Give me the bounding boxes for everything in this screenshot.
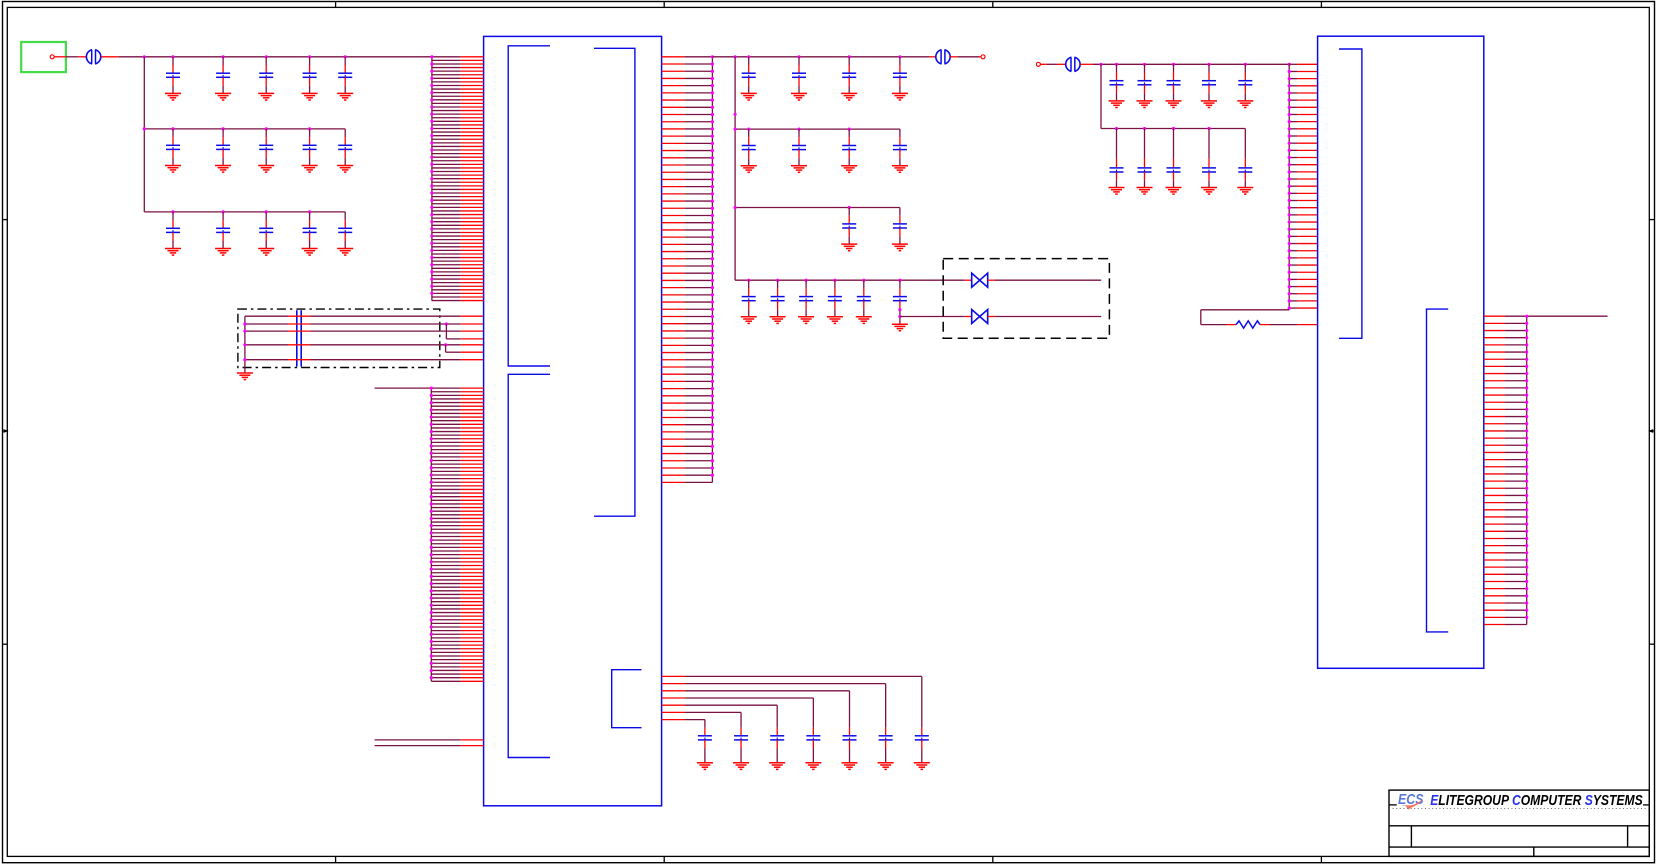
wire bbox=[1201, 324, 1226, 326]
ferrite bead FB3 bbox=[1066, 56, 1080, 73]
pin U1-B18 bbox=[431, 449, 460, 451]
junction bbox=[344, 55, 347, 58]
pin U1-R38 bbox=[662, 323, 685, 325]
ground bbox=[1237, 101, 1253, 108]
pin U1-B73 bbox=[431, 648, 460, 650]
pin U1-B17 bbox=[431, 445, 460, 447]
pin U2-L25 bbox=[1289, 235, 1297, 237]
pin U1-R36 bbox=[662, 308, 685, 310]
pin U1-B22 bbox=[431, 463, 460, 465]
title block bbox=[1389, 790, 1649, 856]
capacitor C12 bbox=[216, 212, 230, 249]
pin U2-R32 bbox=[1484, 537, 1505, 539]
junction bbox=[243, 330, 246, 333]
junction bbox=[222, 55, 225, 58]
pin U1-R3 bbox=[662, 70, 685, 72]
ground bbox=[741, 93, 757, 100]
pin U1-A55 bbox=[432, 249, 461, 251]
pin U2-L26 bbox=[1289, 243, 1297, 245]
pin U1-B58 bbox=[431, 593, 460, 595]
junction bbox=[848, 206, 851, 209]
pin U2-L12 bbox=[1289, 142, 1297, 144]
junction bbox=[308, 127, 311, 130]
bus wire bbox=[244, 316, 246, 373]
wire row2 bbox=[735, 128, 900, 130]
pin U2-R25 bbox=[1484, 487, 1505, 489]
pin U2-R17 bbox=[1484, 430, 1505, 432]
capacitor C1 bbox=[166, 57, 180, 94]
ground bbox=[892, 166, 908, 173]
pin U1-B57 bbox=[431, 590, 460, 592]
pin U1-A30 bbox=[432, 160, 461, 162]
pin U1-R8 bbox=[662, 106, 685, 108]
ground bbox=[215, 249, 231, 256]
pin U1-A18 bbox=[432, 117, 461, 119]
pin U1-R21 bbox=[662, 200, 685, 202]
ground bbox=[165, 166, 181, 173]
pin U2-R30 bbox=[1484, 523, 1505, 525]
pin U1-R52 bbox=[662, 424, 685, 426]
pin U1-A53 bbox=[432, 242, 461, 244]
pin U1-A6 bbox=[432, 74, 461, 76]
pin U1-R26 bbox=[662, 236, 685, 238]
pin U1-B14 bbox=[431, 434, 460, 436]
ground bbox=[914, 763, 930, 770]
resistor R1 bbox=[1236, 321, 1260, 328]
pin U1-B82 bbox=[431, 680, 460, 682]
ground bbox=[1109, 101, 1125, 108]
pin U1-B13 bbox=[431, 431, 460, 433]
pin U2-L24 bbox=[1289, 228, 1297, 230]
pin U1-R35 bbox=[662, 301, 685, 303]
wire bbox=[375, 745, 461, 747]
pin U2-L21 bbox=[1289, 207, 1297, 209]
pin U1-B19 bbox=[431, 452, 460, 454]
pin U1-B51 bbox=[431, 568, 460, 570]
pin U1-B77 bbox=[431, 662, 460, 664]
wire bbox=[1297, 324, 1317, 326]
junction bbox=[747, 279, 750, 282]
pin U1-B52 bbox=[431, 572, 460, 574]
ground bbox=[1201, 101, 1217, 108]
capacitor C43 bbox=[879, 728, 893, 763]
pin U1-R28 bbox=[662, 251, 685, 253]
capacitor C17 bbox=[792, 57, 806, 94]
ferrite bead FB2 bbox=[936, 48, 950, 65]
pin U1-R18 bbox=[662, 178, 685, 180]
wire net4 bbox=[245, 344, 288, 346]
ground bbox=[337, 166, 353, 173]
pin U1-B47 bbox=[431, 554, 460, 556]
pin U1-R43 bbox=[662, 359, 685, 361]
pin U1-R11 bbox=[662, 128, 685, 130]
wire net3 bbox=[245, 330, 288, 332]
junction bbox=[805, 279, 808, 282]
junction bbox=[898, 55, 901, 58]
pin U2-R33 bbox=[1484, 545, 1505, 547]
pin U1-B43 bbox=[431, 539, 460, 541]
bus wire U2 right bbox=[1526, 316, 1528, 624]
pin U1-B60 bbox=[431, 601, 460, 603]
wire jog bbox=[445, 345, 447, 352]
pin U2-R44 bbox=[1484, 624, 1505, 626]
capacitor C24 bbox=[842, 208, 856, 245]
capacitor C7 bbox=[216, 129, 230, 166]
pin U1-R48 bbox=[662, 395, 685, 397]
pin U2-L2 bbox=[1289, 70, 1297, 72]
pin U2-R15 bbox=[1484, 416, 1505, 418]
pin U1-B33 bbox=[431, 503, 460, 505]
pin U1-B71 bbox=[431, 641, 460, 643]
pin U2-L32 bbox=[1289, 286, 1297, 288]
pin U1-A5 bbox=[432, 70, 461, 72]
pin U2-L23 bbox=[1289, 221, 1297, 223]
capacitor C35 bbox=[1202, 64, 1216, 101]
junction bbox=[1143, 127, 1146, 130]
U1 inner section D bbox=[612, 670, 642, 728]
ground bbox=[741, 166, 757, 173]
capacitor C33 bbox=[1138, 64, 1152, 101]
pin U1-B40 bbox=[431, 528, 460, 530]
junction bbox=[1172, 127, 1175, 130]
pin U1-B26 bbox=[431, 478, 460, 480]
wire bbox=[1040, 63, 1047, 65]
wire jog bbox=[445, 324, 447, 339]
pin U1-A47 bbox=[432, 221, 461, 223]
pin U1-R20 bbox=[662, 193, 685, 195]
pin U1-B28 bbox=[431, 485, 460, 487]
pin U1-A12 bbox=[432, 95, 461, 97]
pin U1-R46 bbox=[662, 380, 685, 382]
pin U1-A66 bbox=[432, 289, 461, 291]
junction bbox=[171, 210, 174, 213]
ground bbox=[842, 763, 858, 770]
pin U2-R12 bbox=[1484, 394, 1505, 396]
wire bbox=[812, 698, 814, 728]
pin U2-L18 bbox=[1289, 185, 1297, 187]
pin U1-B79 bbox=[431, 669, 460, 671]
junction bbox=[1099, 63, 1102, 66]
pin U1-A15 bbox=[432, 106, 461, 108]
junction bbox=[734, 206, 737, 209]
pin U1-B16 bbox=[431, 441, 460, 443]
pin U1-S3 wire bbox=[662, 690, 685, 692]
ground bbox=[302, 249, 318, 256]
pin U1-A21 bbox=[432, 128, 461, 130]
pin U1-A19 bbox=[432, 120, 461, 122]
pin U1-B48 bbox=[431, 557, 460, 559]
junction bbox=[1207, 63, 1210, 66]
feedthrough plate bbox=[300, 310, 302, 366]
pin U1-R19 bbox=[662, 186, 685, 188]
pin U1-B74 bbox=[431, 651, 460, 653]
IC U1 north bridge bbox=[484, 36, 662, 805]
junction bbox=[265, 55, 268, 58]
capacitor C20 bbox=[742, 129, 756, 166]
capacitor C44 bbox=[843, 728, 857, 763]
pin U2-L17 bbox=[1289, 178, 1297, 180]
pin U1-A59 bbox=[432, 264, 461, 266]
pin U1-R5 bbox=[662, 85, 685, 87]
pin U2-R11 bbox=[1484, 387, 1505, 389]
pin U1-R23 bbox=[662, 214, 685, 216]
capacitor C34 bbox=[1167, 64, 1181, 101]
pin U1-A7 bbox=[432, 77, 461, 79]
wire bbox=[995, 279, 1101, 281]
bus wire bbox=[143, 57, 145, 212]
wire bbox=[988, 279, 995, 281]
junction bbox=[171, 55, 174, 58]
pin U2-R24 bbox=[1484, 480, 1505, 482]
pin U1-R32 bbox=[662, 279, 685, 281]
dashed module box M1 bbox=[238, 309, 440, 367]
pin U2-L27 bbox=[1289, 250, 1297, 252]
ground bbox=[798, 317, 814, 324]
junction bbox=[1172, 63, 1175, 66]
wire row3 bbox=[735, 207, 900, 209]
pin U2-R42 bbox=[1484, 609, 1505, 611]
pin U1-R57 bbox=[662, 460, 685, 462]
pin U2-R7 bbox=[1484, 358, 1505, 360]
pin U1-A13 bbox=[432, 99, 461, 101]
junction bbox=[747, 55, 750, 58]
pin U1-B53 bbox=[431, 575, 460, 577]
junction bbox=[243, 358, 246, 361]
pin U1-A45 bbox=[432, 214, 461, 216]
wire bbox=[101, 56, 119, 58]
wire row2 bbox=[1101, 128, 1245, 130]
capacitor C27 bbox=[771, 280, 785, 317]
U2 inner section A bbox=[1339, 49, 1362, 338]
wire row3 bbox=[144, 211, 345, 213]
pin U1-A14 bbox=[432, 102, 461, 104]
pin U1-B69 bbox=[431, 633, 460, 635]
pin U1-B56 bbox=[431, 586, 460, 588]
ground bbox=[878, 763, 894, 770]
pin U1-A60 bbox=[432, 267, 461, 269]
bus wire U1 left upper bbox=[431, 57, 433, 301]
wire stub bbox=[375, 387, 432, 389]
wire bbox=[957, 56, 979, 58]
pin U1-R22 bbox=[662, 207, 685, 209]
pin U1-A26 bbox=[432, 145, 461, 147]
junction bbox=[833, 279, 836, 282]
pin U2-R2 bbox=[1484, 322, 1505, 324]
ground bbox=[1166, 188, 1182, 195]
wire VCC-B net bbox=[712, 56, 929, 58]
ground bbox=[237, 373, 253, 380]
wire bbox=[950, 56, 957, 58]
wire bbox=[1057, 63, 1066, 65]
pin U2-L16 bbox=[1289, 171, 1297, 173]
junction bbox=[734, 128, 737, 131]
pin U1-B81 bbox=[431, 677, 460, 679]
pin U1-A23 bbox=[432, 135, 461, 137]
pin U1-R47 bbox=[662, 388, 685, 390]
pin U1-B37 bbox=[431, 517, 460, 519]
pin U1-A67 bbox=[432, 292, 461, 294]
pin U2-L10 bbox=[1289, 128, 1297, 130]
pin U1-B15 bbox=[431, 438, 460, 440]
pin U1-R16 bbox=[662, 164, 685, 166]
pin U2-L28 bbox=[1289, 257, 1297, 259]
pin U1-R12 bbox=[662, 135, 685, 137]
U2 inner section B bbox=[1427, 309, 1449, 632]
bus wire U2 left bbox=[1288, 64, 1290, 309]
pin U2-R36 bbox=[1484, 566, 1505, 568]
junction bbox=[444, 343, 447, 346]
wire bbox=[1201, 309, 1289, 311]
wire bbox=[1047, 63, 1057, 65]
pin U2-R41 bbox=[1484, 602, 1505, 604]
pin U1-A64 bbox=[432, 282, 461, 284]
pin U1-R39 bbox=[662, 330, 685, 332]
pin U1-R33 bbox=[662, 287, 685, 289]
pin U2-R5 bbox=[1484, 344, 1505, 346]
junction bbox=[1244, 63, 1247, 66]
wire bbox=[740, 712, 742, 727]
pin U1-A24 bbox=[432, 138, 461, 140]
pin U1-A68 bbox=[432, 296, 461, 298]
pin U2-R21 bbox=[1484, 459, 1505, 461]
pin U1-R6 bbox=[662, 92, 685, 94]
pin U2-R16 bbox=[1484, 423, 1505, 425]
pin U1-R15 bbox=[662, 157, 685, 159]
pin U1-B23 bbox=[431, 467, 460, 469]
pin U1-R2 bbox=[662, 63, 685, 65]
pin U2-R3 bbox=[1484, 330, 1505, 332]
pin U1-A10 bbox=[432, 88, 461, 90]
pin U1-A51 bbox=[432, 235, 461, 237]
pin U2-L1 bbox=[1289, 63, 1297, 65]
junction bbox=[445, 322, 448, 325]
wire bbox=[988, 316, 995, 318]
capacitor C8 bbox=[259, 129, 273, 166]
pin U2-L14 bbox=[1289, 157, 1297, 159]
junction bbox=[862, 279, 865, 282]
pin U2-R18 bbox=[1484, 437, 1505, 439]
terminal P2 bbox=[981, 55, 985, 59]
ground bbox=[1137, 101, 1153, 108]
pin U1-B41 bbox=[431, 532, 460, 534]
wire bbox=[1260, 324, 1270, 326]
U1 inner section B bbox=[508, 374, 550, 757]
pin U1-B31 bbox=[431, 496, 460, 498]
pin U1-B27 bbox=[431, 481, 460, 483]
wire bbox=[1270, 324, 1297, 326]
pin U2-R38 bbox=[1484, 580, 1505, 582]
pin U1-B72 bbox=[431, 644, 460, 646]
ground bbox=[791, 166, 807, 173]
capacitor C18 bbox=[842, 57, 856, 94]
pin U2-L11 bbox=[1289, 135, 1297, 137]
wire bbox=[979, 56, 981, 58]
wire bbox=[965, 279, 972, 281]
pin U2-L9 bbox=[1289, 121, 1297, 123]
capacitor C4 bbox=[303, 57, 317, 94]
capacitor C42 bbox=[915, 728, 929, 763]
U1 inner section C bbox=[594, 48, 635, 516]
pin U1-R42 bbox=[662, 352, 685, 354]
pin U2-R9 bbox=[1484, 373, 1505, 375]
pin U1-A40 bbox=[432, 196, 461, 198]
junction bbox=[776, 279, 779, 282]
pin U1-B30 bbox=[431, 492, 460, 494]
ground bbox=[805, 763, 821, 770]
pin U1-B50 bbox=[431, 564, 460, 566]
pin U1-A46 bbox=[432, 217, 461, 219]
pin U2-L8 bbox=[1289, 113, 1297, 115]
pin U1-B42 bbox=[431, 536, 460, 538]
junction bbox=[898, 315, 901, 318]
pin U1-A39 bbox=[432, 192, 461, 194]
pin U1-B66 bbox=[431, 622, 460, 624]
capacitor C37 bbox=[1110, 129, 1124, 188]
ground bbox=[827, 317, 843, 324]
pin U1-B67 bbox=[431, 626, 460, 628]
pin U1-A48 bbox=[432, 224, 461, 226]
pin U2-L7 bbox=[1289, 106, 1297, 108]
capacitor C30 bbox=[857, 280, 871, 317]
pin U2-R27 bbox=[1484, 502, 1505, 504]
pin U1-A9 bbox=[432, 84, 461, 86]
pin U1-A49 bbox=[432, 228, 461, 230]
capacitor C31 bbox=[893, 280, 907, 324]
wire bbox=[54, 56, 66, 58]
junction bbox=[308, 55, 311, 58]
pin U1-R54 bbox=[662, 438, 685, 440]
pin U2-L29 bbox=[1289, 264, 1297, 266]
pin U1-A32 bbox=[432, 167, 461, 169]
ground bbox=[1137, 188, 1153, 195]
ground bbox=[892, 244, 908, 251]
pin U2-L4 bbox=[1289, 85, 1297, 87]
IC U2 south bridge bbox=[1318, 36, 1484, 668]
wire bbox=[849, 691, 851, 728]
junction bbox=[734, 55, 737, 58]
pin U2-L13 bbox=[1289, 149, 1297, 151]
pin U1-S4 wire bbox=[662, 697, 685, 699]
pin U2-L5 bbox=[1289, 92, 1297, 94]
ground bbox=[258, 249, 274, 256]
pin U1-B62 bbox=[431, 608, 460, 610]
pin U1-B76 bbox=[431, 659, 460, 661]
pin U2-R23 bbox=[1484, 473, 1505, 475]
pin U1-B59 bbox=[431, 597, 460, 599]
pin U1-B75 bbox=[431, 655, 460, 657]
port J1 bbox=[21, 42, 66, 72]
pin U2-R40 bbox=[1484, 595, 1505, 597]
pin U1-A11 bbox=[432, 92, 461, 94]
pin U1-A61 bbox=[432, 271, 461, 273]
bus wire bbox=[734, 57, 736, 280]
pin U2-R28 bbox=[1484, 509, 1505, 511]
pin U1-A8 bbox=[432, 81, 461, 83]
junction bbox=[797, 128, 800, 131]
pin U1-A1 bbox=[432, 56, 461, 58]
capacitor C40 bbox=[1202, 129, 1216, 188]
pin U1-A27 bbox=[432, 149, 461, 151]
capacitor C45 bbox=[806, 728, 820, 763]
pin U1-R17 bbox=[662, 171, 685, 173]
pin U2-L33 bbox=[1289, 293, 1297, 295]
ground bbox=[1109, 188, 1125, 195]
pin U1-R27 bbox=[662, 243, 685, 245]
junction bbox=[1115, 127, 1118, 130]
capacitor C19 bbox=[893, 57, 907, 94]
wire net1 bbox=[245, 315, 288, 317]
pin U1-R25 bbox=[662, 229, 685, 231]
